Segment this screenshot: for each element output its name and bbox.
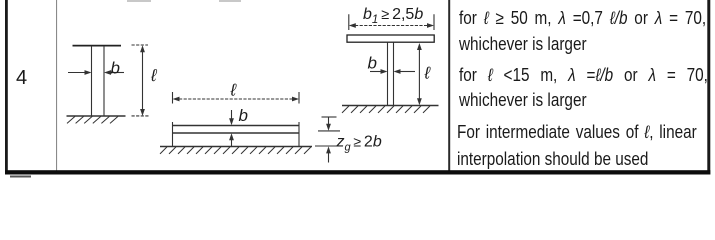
svg-text:zg ≥ 2b: zg ≥ 2b	[336, 134, 382, 154]
svg-text:b1 ≥ 2,5b: b1 ≥ 2,5b	[363, 6, 423, 26]
svg-text:b: b	[368, 54, 377, 73]
svg-text:ℓ: ℓ	[230, 81, 237, 100]
svg-text:b: b	[111, 59, 120, 78]
svg-text:ℓ: ℓ	[424, 64, 431, 83]
svg-text:b: b	[239, 106, 248, 125]
svg-text:ℓ: ℓ	[150, 66, 157, 85]
